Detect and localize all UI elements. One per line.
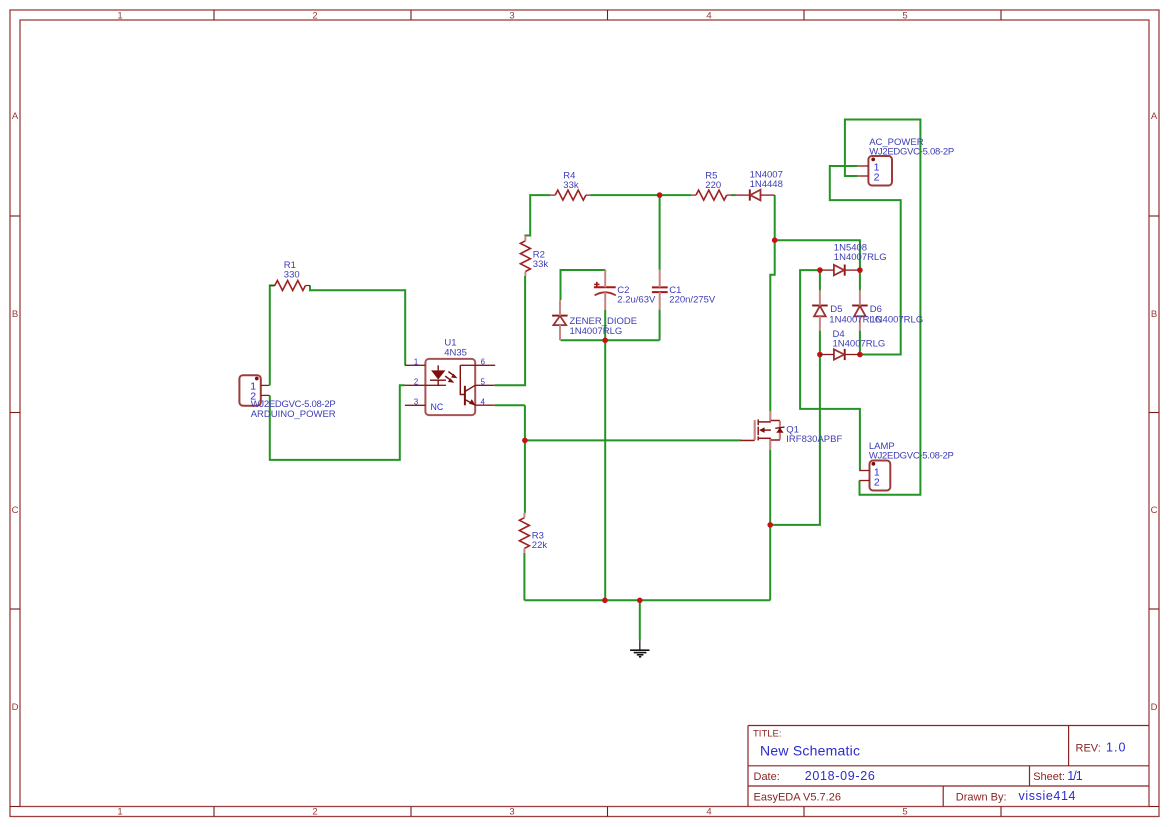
svg-text:A: A	[1151, 111, 1158, 122]
svg-text:6: 6	[481, 358, 485, 367]
svg-text:2: 2	[414, 378, 418, 387]
svg-text:4: 4	[706, 807, 711, 818]
svg-text:5: 5	[481, 378, 486, 387]
svg-text:1N4007RLG: 1N4007RLG	[833, 339, 886, 350]
svg-text:IRF830APBF: IRF830APBF	[786, 434, 842, 445]
svg-text:New Schematic: New Schematic	[760, 742, 860, 758]
svg-text:Drawn By:: Drawn By:	[956, 792, 1007, 804]
svg-text:B: B	[1151, 309, 1157, 320]
svg-text:2: 2	[874, 477, 880, 489]
svg-text:C: C	[1151, 505, 1158, 516]
svg-text:vissie414: vissie414	[1019, 789, 1076, 803]
svg-text:1: 1	[117, 807, 122, 818]
svg-text:2: 2	[874, 171, 880, 183]
svg-text:2: 2	[312, 807, 317, 818]
svg-text:REV:: REV:	[1076, 742, 1101, 754]
svg-text:33k: 33k	[533, 259, 549, 270]
svg-text:2: 2	[312, 11, 317, 22]
svg-text:EasyEDA V5.7.26: EasyEDA V5.7.26	[754, 792, 841, 804]
svg-text:D: D	[12, 702, 19, 713]
svg-text:5: 5	[902, 11, 907, 22]
svg-text:3: 3	[509, 807, 514, 818]
svg-text:1/1: 1/1	[1067, 769, 1083, 783]
svg-text:33k: 33k	[563, 180, 579, 191]
svg-text:4N35: 4N35	[444, 347, 467, 358]
svg-text:1N4007RLG: 1N4007RLG	[870, 315, 923, 326]
svg-text:220n/275V: 220n/275V	[669, 294, 716, 305]
svg-text:3: 3	[414, 398, 418, 407]
svg-text:5: 5	[902, 807, 907, 818]
svg-text:4: 4	[706, 11, 711, 22]
svg-text:1N4448: 1N4448	[750, 179, 783, 190]
svg-text:Sheet:: Sheet:	[1033, 771, 1065, 783]
svg-text:1.0: 1.0	[1106, 741, 1126, 755]
svg-text:WJ2EDGVC-5.08-2P: WJ2EDGVC-5.08-2P	[869, 450, 954, 461]
svg-text:D5: D5	[830, 304, 842, 315]
svg-text:1: 1	[414, 358, 418, 367]
svg-text:D6: D6	[870, 304, 882, 315]
svg-text:TITLE:: TITLE:	[753, 728, 782, 739]
svg-text:1: 1	[117, 11, 122, 22]
svg-text:ARDUINO_POWER: ARDUINO_POWER	[251, 409, 336, 420]
svg-text:1N4007RLG: 1N4007RLG	[570, 326, 623, 337]
svg-text:1N4007RLG: 1N4007RLG	[834, 252, 887, 263]
svg-text:D: D	[1151, 702, 1158, 713]
svg-text:WJ2EDGVC-5.08-2P: WJ2EDGVC-5.08-2P	[869, 146, 954, 157]
svg-text:NC: NC	[431, 402, 444, 412]
svg-text:Date:: Date:	[754, 771, 780, 783]
svg-text:22k: 22k	[532, 540, 548, 551]
svg-text:2.2u/63V: 2.2u/63V	[617, 294, 656, 305]
svg-text:2: 2	[250, 391, 256, 403]
svg-text:330: 330	[284, 269, 300, 280]
svg-text:B: B	[12, 309, 18, 320]
svg-text:4: 4	[481, 398, 486, 407]
svg-text:220: 220	[705, 180, 721, 191]
svg-text:3: 3	[509, 11, 514, 22]
svg-text:A: A	[12, 111, 19, 122]
svg-text:C: C	[12, 505, 19, 516]
svg-text:2018-09-26: 2018-09-26	[805, 769, 875, 783]
